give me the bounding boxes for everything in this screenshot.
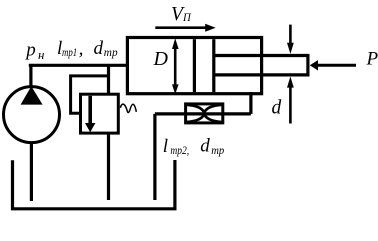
svg-text:тр1: тр1 [62,47,77,59]
svg-text:н: н [38,48,44,62]
svg-text:d: d [200,136,210,157]
svg-text:П: П [182,10,192,24]
svg-text:d: d [272,97,282,118]
svg-text:тр: тр [211,145,224,157]
svg-text:l: l [163,136,168,157]
svg-text:тр2,: тр2, [170,145,189,157]
svg-text:P: P [366,49,378,70]
svg-text:d: d [94,38,104,59]
svg-text:p: p [24,39,36,60]
svg-text:тр: тр [104,47,118,59]
svg-text:D: D [153,48,169,70]
svg-text:,: , [79,39,84,60]
